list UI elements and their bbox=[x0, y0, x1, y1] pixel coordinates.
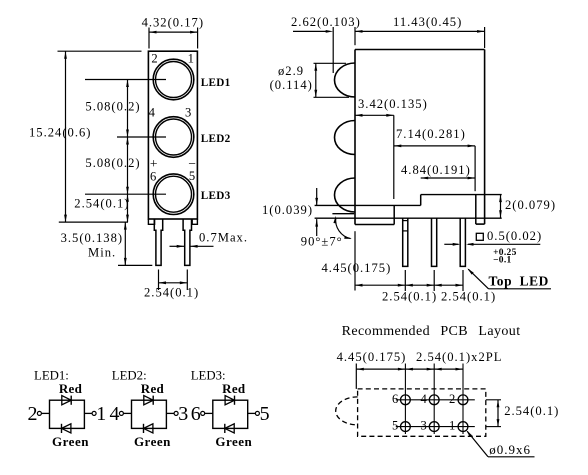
square lead 0.5(0.02) bbox=[444, 229, 542, 246]
PCB hole 3 bbox=[429, 422, 439, 432]
PCB hole numbers bbox=[392, 392, 455, 433]
dimension 5.08(0.2) lower bbox=[85, 137, 140, 194]
dimension 3.5(0.138) Min bbox=[61, 222, 153, 265]
svg-text:Red: Red bbox=[59, 381, 83, 396]
dimension 3.42(0.135) bbox=[355, 97, 428, 199]
PCB top dimension chain bbox=[356, 364, 463, 389]
dimension 2(0.079) bbox=[499, 195, 556, 218]
svg-text:ø2.9: ø2.9 bbox=[278, 64, 304, 78]
dimension 4.32(0.17) bbox=[142, 16, 204, 49]
svg-text:LED3:: LED3: bbox=[191, 368, 226, 382]
svg-text:LED2: LED2 bbox=[201, 133, 231, 145]
svg-text:4: 4 bbox=[110, 403, 120, 425]
dimension dia2.9(0.114) bbox=[270, 63, 349, 97]
svg-text:2.54(0.1): 2.54(0.1) bbox=[504, 404, 559, 418]
dimension 1(0.039) bbox=[262, 188, 318, 236]
svg-text:3.42(0.135): 3.42(0.135) bbox=[358, 97, 428, 111]
svg-text:5: 5 bbox=[189, 169, 195, 183]
schematic LED1 pin 1 terminal bbox=[84, 403, 106, 425]
PCB hole 5 bbox=[401, 422, 411, 432]
PCB hole size 0.9x6 leader bbox=[466, 430, 534, 457]
label LED3 bbox=[201, 190, 231, 202]
svg-text:90°±7°: 90°±7° bbox=[301, 234, 343, 248]
side lead 2 bbox=[432, 218, 437, 266]
schematic LED3 pin 5 terminal bbox=[248, 403, 270, 425]
pin numbers front view bbox=[149, 52, 195, 184]
svg-text:2: 2 bbox=[28, 403, 38, 425]
svg-text:Min.: Min. bbox=[88, 246, 116, 260]
schematic LED2 green diode bottom bbox=[144, 424, 153, 433]
schematic LED1 Green label bbox=[52, 434, 89, 449]
dimension 2.62(0.103) bbox=[291, 15, 361, 73]
svg-text:5.08(0.2): 5.08(0.2) bbox=[85, 156, 140, 170]
svg-text:2(0.079): 2(0.079) bbox=[505, 198, 556, 212]
PCB dim 2.54(0.1)x2PL text bbox=[416, 350, 502, 364]
svg-text:Top LED: Top LED bbox=[489, 273, 549, 288]
svg-text:5: 5 bbox=[260, 403, 270, 425]
dimension 4.45(0.175) side bbox=[322, 231, 464, 291]
svg-text:5: 5 bbox=[392, 419, 398, 433]
svg-text:15.24(0.6): 15.24(0.6) bbox=[29, 126, 91, 140]
schematic LED1 loop wire bbox=[50, 400, 85, 428]
schematic LED3 pin 6 terminal bbox=[191, 403, 213, 425]
svg-text:7.14(0.281): 7.14(0.281) bbox=[396, 127, 466, 141]
side view body outline bbox=[315, 50, 502, 225]
schematic LED1 pin 2 terminal bbox=[28, 403, 50, 425]
dimension 11.43(0.45) bbox=[355, 15, 485, 48]
front lead pin2 left bbox=[154, 219, 162, 265]
schematic LED2 Green label bbox=[134, 434, 171, 449]
svg-text:LED1: LED1 bbox=[201, 77, 231, 89]
svg-text:−0.1: −0.1 bbox=[493, 256, 512, 266]
svg-text:0.5(0.02): 0.5(0.02) bbox=[487, 229, 542, 243]
label Top LED with leader bbox=[467, 268, 551, 288]
svg-text:3: 3 bbox=[178, 403, 188, 425]
svg-text:6: 6 bbox=[191, 403, 201, 425]
LED2 lens circle bbox=[153, 117, 194, 158]
schematic LED3 label bbox=[191, 368, 226, 382]
svg-text:(0.114): (0.114) bbox=[270, 78, 313, 92]
PCB hole 4 bbox=[429, 395, 439, 405]
schematic LED2 Red label bbox=[141, 381, 165, 396]
svg-text:2.54(0.1): 2.54(0.1) bbox=[144, 286, 199, 300]
schematic LED1 green diode bottom bbox=[62, 424, 71, 433]
schematic LED3 Red label bbox=[222, 381, 246, 396]
dimension 4.84(0.191) bbox=[401, 163, 475, 180]
tolerance +0.25 -0.1 bbox=[493, 248, 517, 266]
polarity marks bbox=[150, 156, 196, 171]
svg-text:5.08(0.2): 5.08(0.2) bbox=[85, 99, 140, 113]
dimension 0.7Max bbox=[170, 231, 248, 248]
schematic LED2 pin 3 terminal bbox=[166, 403, 188, 425]
schematic LED2 red diode top bbox=[144, 396, 153, 405]
svg-text:6: 6 bbox=[392, 392, 398, 406]
schematic LED3 loop wire bbox=[213, 400, 248, 428]
svg-text:2: 2 bbox=[151, 52, 157, 66]
svg-text:4.45(0.175): 4.45(0.175) bbox=[337, 350, 407, 364]
PCB layout title bbox=[342, 324, 521, 339]
svg-text:Green: Green bbox=[52, 434, 89, 449]
svg-text:1(0.039): 1(0.039) bbox=[262, 203, 313, 217]
svg-text:2.54(0.1)x2PL: 2.54(0.1)x2PL bbox=[416, 350, 502, 364]
schematic LED3 Green label bbox=[215, 434, 252, 449]
schematic LED1 Red label bbox=[59, 381, 83, 396]
LED center leader lines bbox=[85, 80, 166, 195]
svg-text:1: 1 bbox=[449, 419, 455, 433]
svg-text:2.54(0.1): 2.54(0.1) bbox=[441, 290, 496, 304]
svg-text:4.45(0.175): 4.45(0.175) bbox=[322, 261, 392, 275]
PCB right dimension 2.54(0.1) bbox=[497, 400, 560, 427]
PCB hole 2 bbox=[458, 395, 468, 405]
LED1 lens circle bbox=[153, 59, 194, 100]
svg-text:4: 4 bbox=[421, 392, 428, 406]
svg-text:4.32(0.17): 4.32(0.17) bbox=[142, 16, 204, 30]
side lead 3 top LED bbox=[460, 218, 465, 266]
dimension 7.14(0.281) bbox=[394, 127, 475, 191]
svg-text:Red: Red bbox=[141, 381, 165, 396]
schematic LED3 red diode top bbox=[225, 396, 234, 405]
svg-text:3.5(0.138): 3.5(0.138) bbox=[61, 231, 123, 245]
svg-text:4: 4 bbox=[149, 105, 156, 119]
schematic LED1 red diode top bbox=[62, 396, 71, 405]
svg-text:LED3: LED3 bbox=[201, 190, 231, 202]
dimension 5.08(0.2) upper bbox=[85, 80, 140, 138]
svg-text:1: 1 bbox=[188, 52, 194, 66]
PCB dashed outline bbox=[336, 389, 486, 436]
PCB hole centerlines bbox=[396, 364, 501, 435]
dimension 2.54(0.1) vertical bbox=[74, 194, 129, 222]
schematic LED2 label bbox=[112, 368, 147, 382]
dimension 15.24(0.6) bbox=[29, 51, 142, 222]
PCB hole 1 bbox=[458, 422, 468, 432]
front lead pin1 right bbox=[183, 219, 191, 265]
side dome 1 bbox=[334, 63, 355, 97]
svg-text:3: 3 bbox=[185, 105, 191, 119]
svg-text:4.84(0.191): 4.84(0.191) bbox=[401, 163, 471, 177]
schematic LED2 pin 4 terminal bbox=[110, 403, 132, 425]
label LED2 bbox=[201, 133, 231, 145]
svg-text:11.43(0.45): 11.43(0.45) bbox=[393, 15, 462, 29]
PCB hole 6 bbox=[401, 395, 411, 405]
schematic LED2 loop wire bbox=[132, 400, 167, 428]
svg-text:0.7Max.: 0.7Max. bbox=[199, 231, 248, 245]
svg-text:Green: Green bbox=[215, 434, 252, 449]
schematic LED1 label bbox=[34, 368, 69, 382]
svg-text:3: 3 bbox=[421, 419, 427, 433]
svg-text:Green: Green bbox=[134, 434, 171, 449]
svg-text:2.62(0.103): 2.62(0.103) bbox=[291, 15, 361, 29]
dimension 2.54(0.1) front pitch bbox=[144, 270, 199, 300]
side dome 3 bbox=[334, 178, 355, 212]
svg-text:Red: Red bbox=[222, 381, 246, 396]
LED3 lens circle bbox=[153, 174, 194, 215]
side dome 2 bbox=[335, 121, 355, 155]
svg-text:2: 2 bbox=[449, 392, 455, 406]
schematic LED3 green diode bottom bbox=[225, 424, 234, 433]
svg-text:2.54(0.1): 2.54(0.1) bbox=[74, 197, 129, 211]
svg-text:−: − bbox=[188, 156, 196, 171]
dimension 90deg lead angle bbox=[301, 216, 352, 249]
svg-text:+: + bbox=[150, 156, 158, 171]
svg-text:Recommended PCB Layout: Recommended PCB Layout bbox=[342, 324, 521, 339]
svg-text:2.54(0.1): 2.54(0.1) bbox=[382, 290, 437, 304]
svg-text:6: 6 bbox=[150, 170, 156, 184]
label LED1 bbox=[201, 77, 231, 89]
PCB dim 4.45(0.175) text bbox=[337, 350, 407, 364]
side lead pitch texts bbox=[382, 290, 496, 304]
side lead 1 with crimp bbox=[403, 218, 408, 266]
front view body outline bbox=[148, 51, 197, 224]
svg-text:ø0.9x6: ø0.9x6 bbox=[489, 442, 531, 457]
svg-text:1: 1 bbox=[96, 403, 106, 425]
